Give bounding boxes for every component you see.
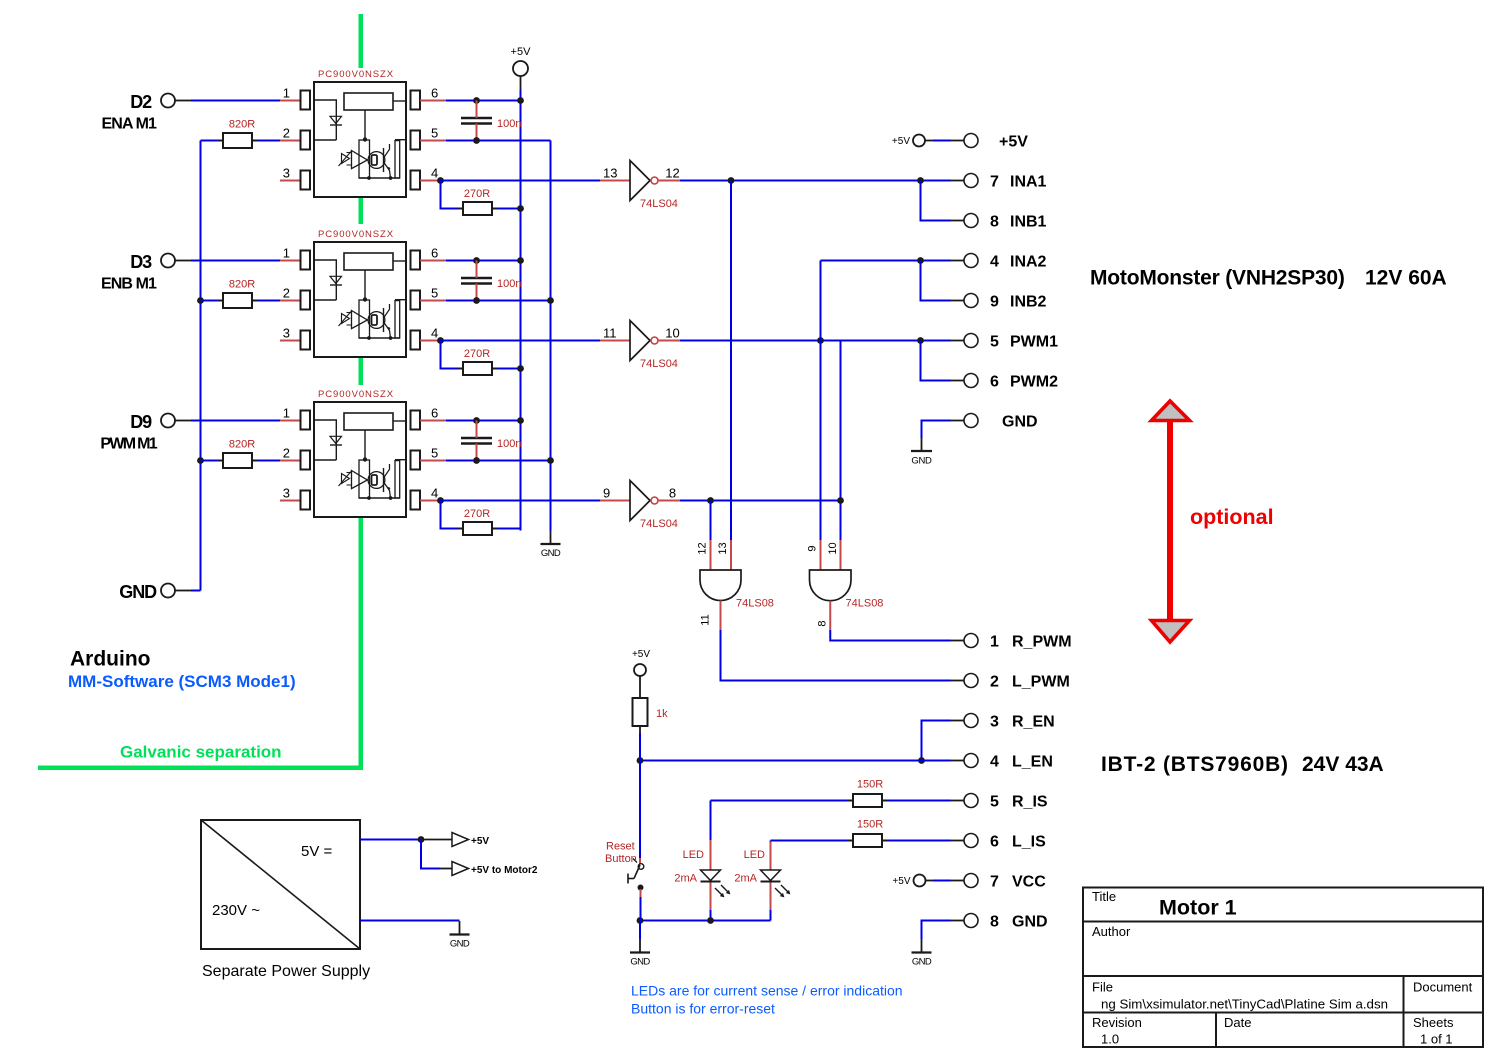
- svg-text:PC900V0NSZX: PC900V0NSZX: [318, 389, 394, 400]
- svg-text:Motor 1: Motor 1: [1159, 896, 1237, 920]
- svg-text:11: 11: [603, 326, 617, 341]
- svg-text:1 of 1: 1 of 1: [1420, 1032, 1453, 1047]
- svg-text:2mA: 2mA: [674, 873, 697, 885]
- svg-text:INA2: INA2: [1010, 254, 1047, 271]
- svg-text:Reset: Reset: [606, 841, 635, 853]
- svg-text:6: 6: [431, 86, 438, 101]
- svg-text:100n: 100n: [497, 278, 521, 290]
- svg-text:+5V: +5V: [892, 136, 910, 147]
- svg-text:230V ~: 230V ~: [212, 902, 260, 919]
- svg-text:GND: GND: [450, 939, 470, 950]
- svg-text:+5V: +5V: [511, 46, 532, 58]
- svg-text:270R: 270R: [464, 508, 490, 520]
- svg-text:Document: Document: [1413, 980, 1473, 995]
- svg-text:LED: LED: [744, 849, 765, 861]
- svg-text:D9: D9: [130, 412, 152, 432]
- svg-text:5: 5: [431, 126, 438, 141]
- svg-text:MM-Software (SCM3 Mode1): MM-Software (SCM3 Mode1): [68, 672, 296, 691]
- svg-text:1: 1: [990, 634, 999, 651]
- svg-text:12: 12: [665, 166, 679, 181]
- svg-text:12V 60A: 12V 60A: [1365, 267, 1447, 290]
- svg-text:6: 6: [990, 834, 999, 851]
- svg-text:100n: 100n: [497, 118, 521, 130]
- svg-text:PWM1: PWM1: [1010, 334, 1058, 351]
- svg-text:+5V: +5V: [471, 836, 489, 847]
- svg-text:8: 8: [669, 486, 676, 501]
- svg-text:L_IS: L_IS: [1012, 834, 1046, 851]
- svg-text:820R: 820R: [229, 279, 255, 291]
- svg-text:1: 1: [283, 86, 290, 101]
- svg-text:Author: Author: [1092, 924, 1131, 939]
- svg-text:4: 4: [431, 166, 438, 181]
- svg-text:150R: 150R: [857, 779, 883, 791]
- svg-text:GND: GND: [119, 582, 157, 602]
- svg-text:Revision: Revision: [1092, 1015, 1142, 1030]
- svg-text:6: 6: [431, 406, 438, 421]
- svg-text:3: 3: [283, 486, 290, 501]
- svg-text:MotoMonster (VNH2SP30): MotoMonster (VNH2SP30): [1090, 267, 1345, 290]
- svg-text:10: 10: [827, 542, 839, 554]
- svg-text:R_PWM: R_PWM: [1012, 634, 1072, 651]
- svg-text:7: 7: [990, 874, 999, 891]
- svg-text:GND: GND: [1002, 414, 1038, 431]
- svg-text:Title: Title: [1092, 889, 1116, 904]
- svg-text:INB1: INB1: [1010, 214, 1047, 231]
- svg-text:L_PWM: L_PWM: [1012, 674, 1070, 691]
- svg-text:3: 3: [283, 326, 290, 341]
- svg-text:IBT-2 (BTS7960B): IBT-2 (BTS7960B): [1101, 753, 1289, 776]
- svg-text:L_EN: L_EN: [1012, 754, 1053, 771]
- svg-text:820R: 820R: [229, 439, 255, 451]
- svg-text:Galvanic separation: Galvanic separation: [120, 743, 282, 762]
- svg-text:LED: LED: [683, 849, 704, 861]
- svg-text:2: 2: [283, 446, 290, 461]
- svg-text:74LS08: 74LS08: [846, 598, 884, 610]
- svg-text:8: 8: [990, 914, 999, 931]
- svg-text:GND: GND: [541, 548, 561, 559]
- svg-text:74LS04: 74LS04: [640, 358, 678, 370]
- svg-text:INA1: INA1: [1010, 174, 1047, 191]
- svg-text:ENA M1: ENA M1: [102, 116, 157, 133]
- svg-text:Sheets: Sheets: [1413, 1015, 1454, 1030]
- svg-text:2mA: 2mA: [734, 873, 757, 885]
- svg-text:ENB M1: ENB M1: [101, 276, 157, 293]
- svg-text:+5V: +5V: [999, 134, 1028, 151]
- svg-text:270R: 270R: [464, 348, 490, 360]
- svg-text:GND: GND: [911, 456, 932, 467]
- svg-text:5V =: 5V =: [301, 843, 333, 860]
- svg-text:Date: Date: [1224, 1015, 1251, 1030]
- svg-text:+5V to Motor2: +5V to Motor2: [471, 865, 538, 876]
- svg-text:PWM2: PWM2: [1010, 374, 1058, 391]
- svg-text:PC900V0NSZX: PC900V0NSZX: [318, 69, 394, 80]
- svg-text:+5V: +5V: [632, 649, 650, 660]
- svg-text:4: 4: [990, 754, 999, 771]
- svg-text:3: 3: [283, 166, 290, 181]
- svg-text:1: 1: [283, 406, 290, 421]
- svg-text:R_EN: R_EN: [1012, 714, 1055, 731]
- svg-text:1k: 1k: [656, 708, 668, 720]
- svg-text:1: 1: [283, 246, 290, 261]
- svg-text:Button is for error-reset: Button is for error-reset: [631, 1001, 775, 1017]
- svg-text:D2: D2: [130, 92, 152, 112]
- svg-text:INB2: INB2: [1010, 294, 1047, 311]
- svg-text:PC900V0NSZX: PC900V0NSZX: [318, 229, 394, 240]
- svg-text:Arduino: Arduino: [70, 648, 150, 671]
- svg-text:8: 8: [816, 620, 828, 626]
- svg-text:2: 2: [283, 286, 290, 301]
- svg-text:R_IS: R_IS: [1012, 794, 1048, 811]
- svg-text:100n: 100n: [497, 438, 521, 450]
- svg-text:8: 8: [990, 214, 999, 231]
- svg-text:GND: GND: [1012, 914, 1048, 931]
- svg-text:Button: Button: [605, 853, 637, 865]
- svg-text:9: 9: [603, 486, 610, 501]
- svg-text:5: 5: [990, 334, 999, 351]
- svg-text:ng Sim\xsimulator.net\TinyCad\: ng Sim\xsimulator.net\TinyCad\Platine Si…: [1101, 997, 1388, 1012]
- svg-text:7: 7: [990, 174, 999, 191]
- svg-text:12: 12: [696, 542, 708, 554]
- svg-text:13: 13: [717, 542, 729, 554]
- svg-text:4: 4: [990, 254, 999, 271]
- svg-text:74LS08: 74LS08: [736, 598, 774, 610]
- svg-text:LEDs are for current sense / e: LEDs are for current sense / error indic…: [631, 983, 903, 999]
- svg-text:GND: GND: [630, 957, 650, 968]
- svg-text:820R: 820R: [229, 119, 255, 131]
- svg-text:270R: 270R: [464, 188, 490, 200]
- svg-text:5: 5: [431, 286, 438, 301]
- svg-text:3: 3: [990, 714, 999, 731]
- svg-text:2: 2: [990, 674, 999, 691]
- svg-text:9: 9: [990, 294, 999, 311]
- svg-text:5: 5: [431, 446, 438, 461]
- svg-text:4: 4: [431, 486, 438, 501]
- svg-text:PWM M1: PWM M1: [100, 436, 157, 453]
- svg-text:optional: optional: [1190, 505, 1274, 529]
- svg-text:74LS04: 74LS04: [640, 198, 678, 210]
- svg-text:24V 43A: 24V 43A: [1302, 753, 1384, 776]
- svg-text:5: 5: [990, 794, 999, 811]
- svg-text:6: 6: [431, 246, 438, 261]
- svg-text:File: File: [1092, 980, 1113, 995]
- svg-text:9: 9: [806, 545, 818, 551]
- svg-text:11: 11: [699, 614, 711, 625]
- svg-text:150R: 150R: [857, 819, 883, 831]
- svg-text:D3: D3: [130, 252, 152, 272]
- svg-text:6: 6: [990, 374, 999, 391]
- svg-text:VCC: VCC: [1012, 874, 1046, 891]
- svg-text:74LS04: 74LS04: [640, 518, 678, 530]
- svg-text:10: 10: [665, 326, 679, 341]
- svg-text:4: 4: [431, 326, 438, 341]
- svg-text:GND: GND: [912, 957, 932, 968]
- svg-text:+5V: +5V: [892, 876, 910, 887]
- svg-text:13: 13: [603, 166, 617, 181]
- svg-text:Separate Power Supply: Separate Power Supply: [202, 963, 370, 980]
- svg-text:1.0: 1.0: [1101, 1032, 1119, 1047]
- svg-text:2: 2: [283, 126, 290, 141]
